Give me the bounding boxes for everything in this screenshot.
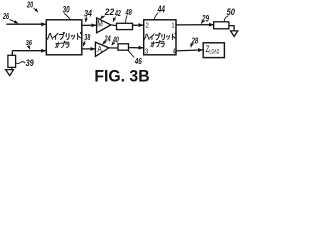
leader 38 bbox=[84, 41, 86, 47]
coupler44 text line2 (katakana coupler) bbox=[151, 41, 164, 47]
leader 40 bbox=[112, 43, 114, 45]
coupler30 text line2 (katakana coupler) bbox=[56, 41, 70, 47]
leader 26 bbox=[9, 19, 18, 23]
svg-text:44: 44 bbox=[157, 3, 165, 15]
leader 36 bbox=[28, 46, 30, 50]
leader 28 bbox=[191, 44, 194, 47]
wire amp A to isolator 46 bbox=[109, 47, 118, 49]
svg-text:2: 2 bbox=[146, 22, 149, 29]
svg-text:36: 36 bbox=[26, 38, 33, 47]
isolator box 46 bbox=[118, 44, 129, 50]
svg-text:38: 38 bbox=[84, 32, 90, 42]
wire coupler30 port to resistor bbox=[12, 50, 46, 52]
leader 50 bbox=[224, 16, 228, 22]
wire coupler30 to amp A bbox=[82, 48, 95, 50]
leader 39 tilde bbox=[16, 62, 25, 64]
leader 30 bbox=[64, 13, 70, 19]
leader 22 bbox=[100, 16, 105, 19]
svg-text:4: 4 bbox=[173, 49, 176, 56]
wire amp M to isolator 48 bbox=[111, 24, 117, 27]
wire down to resistor bbox=[11, 51, 13, 56]
leader 24 bbox=[103, 42, 105, 44]
op-amp M (main amplifier 22) bbox=[97, 18, 111, 33]
svg-text:22: 22 bbox=[104, 7, 114, 17]
svg-text:24: 24 bbox=[104, 34, 111, 44]
leader 29 bbox=[201, 22, 202, 24]
svg-text:3: 3 bbox=[145, 49, 148, 56]
svg-text:30: 30 bbox=[63, 5, 70, 15]
op-amp A (aux amplifier 24) bbox=[95, 42, 109, 56]
leader 44 bbox=[154, 13, 158, 20]
svg-text:50: 50 bbox=[227, 7, 236, 18]
isolator box 50 bbox=[214, 22, 229, 29]
svg-text:39: 39 bbox=[26, 58, 34, 68]
svg-text:34: 34 bbox=[84, 8, 92, 18]
leader 42 bbox=[113, 17, 116, 22]
svg-text:1: 1 bbox=[171, 22, 174, 29]
wire resistor to ground bbox=[11, 67, 13, 69]
wire coupler30 to amp M bbox=[82, 24, 96, 26]
leader 48 bbox=[126, 15, 128, 22]
wire isolator48 to coupler44 pin2 bbox=[133, 24, 144, 26]
leader 20 bbox=[33, 8, 37, 12]
load box ZLOAD bbox=[203, 43, 224, 58]
wire isolator50 to antenna bbox=[229, 26, 234, 31]
wire coupler44 pin1 to isolator 50 bbox=[176, 24, 214, 26]
resistor 39 bbox=[8, 55, 16, 67]
leader 34 bbox=[85, 17, 88, 22]
wire coupler44 pin4 to load bbox=[176, 50, 203, 51]
ground bbox=[6, 70, 14, 76]
coupler30 text line1 (katakana hybrid) bbox=[47, 32, 81, 39]
svg-text:28: 28 bbox=[191, 35, 198, 45]
hybrid coupler 30 box bbox=[46, 20, 82, 55]
svg-text:46: 46 bbox=[134, 56, 142, 66]
svg-text:FIG. 3B: FIG. 3B bbox=[94, 68, 149, 86]
svg-text:A: A bbox=[97, 45, 102, 54]
svg-text:48: 48 bbox=[125, 8, 132, 17]
leader 46 bbox=[128, 51, 134, 58]
svg-text:20: 20 bbox=[26, 0, 33, 9]
svg-text:26: 26 bbox=[2, 11, 9, 21]
coupler44 text line1 (katakana hybrid) bbox=[144, 33, 176, 40]
wire isolator46 to coupler44 pin3 bbox=[129, 47, 144, 49]
svg-text:M: M bbox=[97, 19, 103, 29]
antenna symbol bbox=[231, 31, 238, 37]
hybrid coupler 44 box bbox=[144, 20, 176, 55]
wire input 26 bbox=[6, 23, 46, 25]
svg-text:LOAD: LOAD bbox=[210, 49, 220, 56]
isolator box 48 bbox=[117, 23, 133, 29]
